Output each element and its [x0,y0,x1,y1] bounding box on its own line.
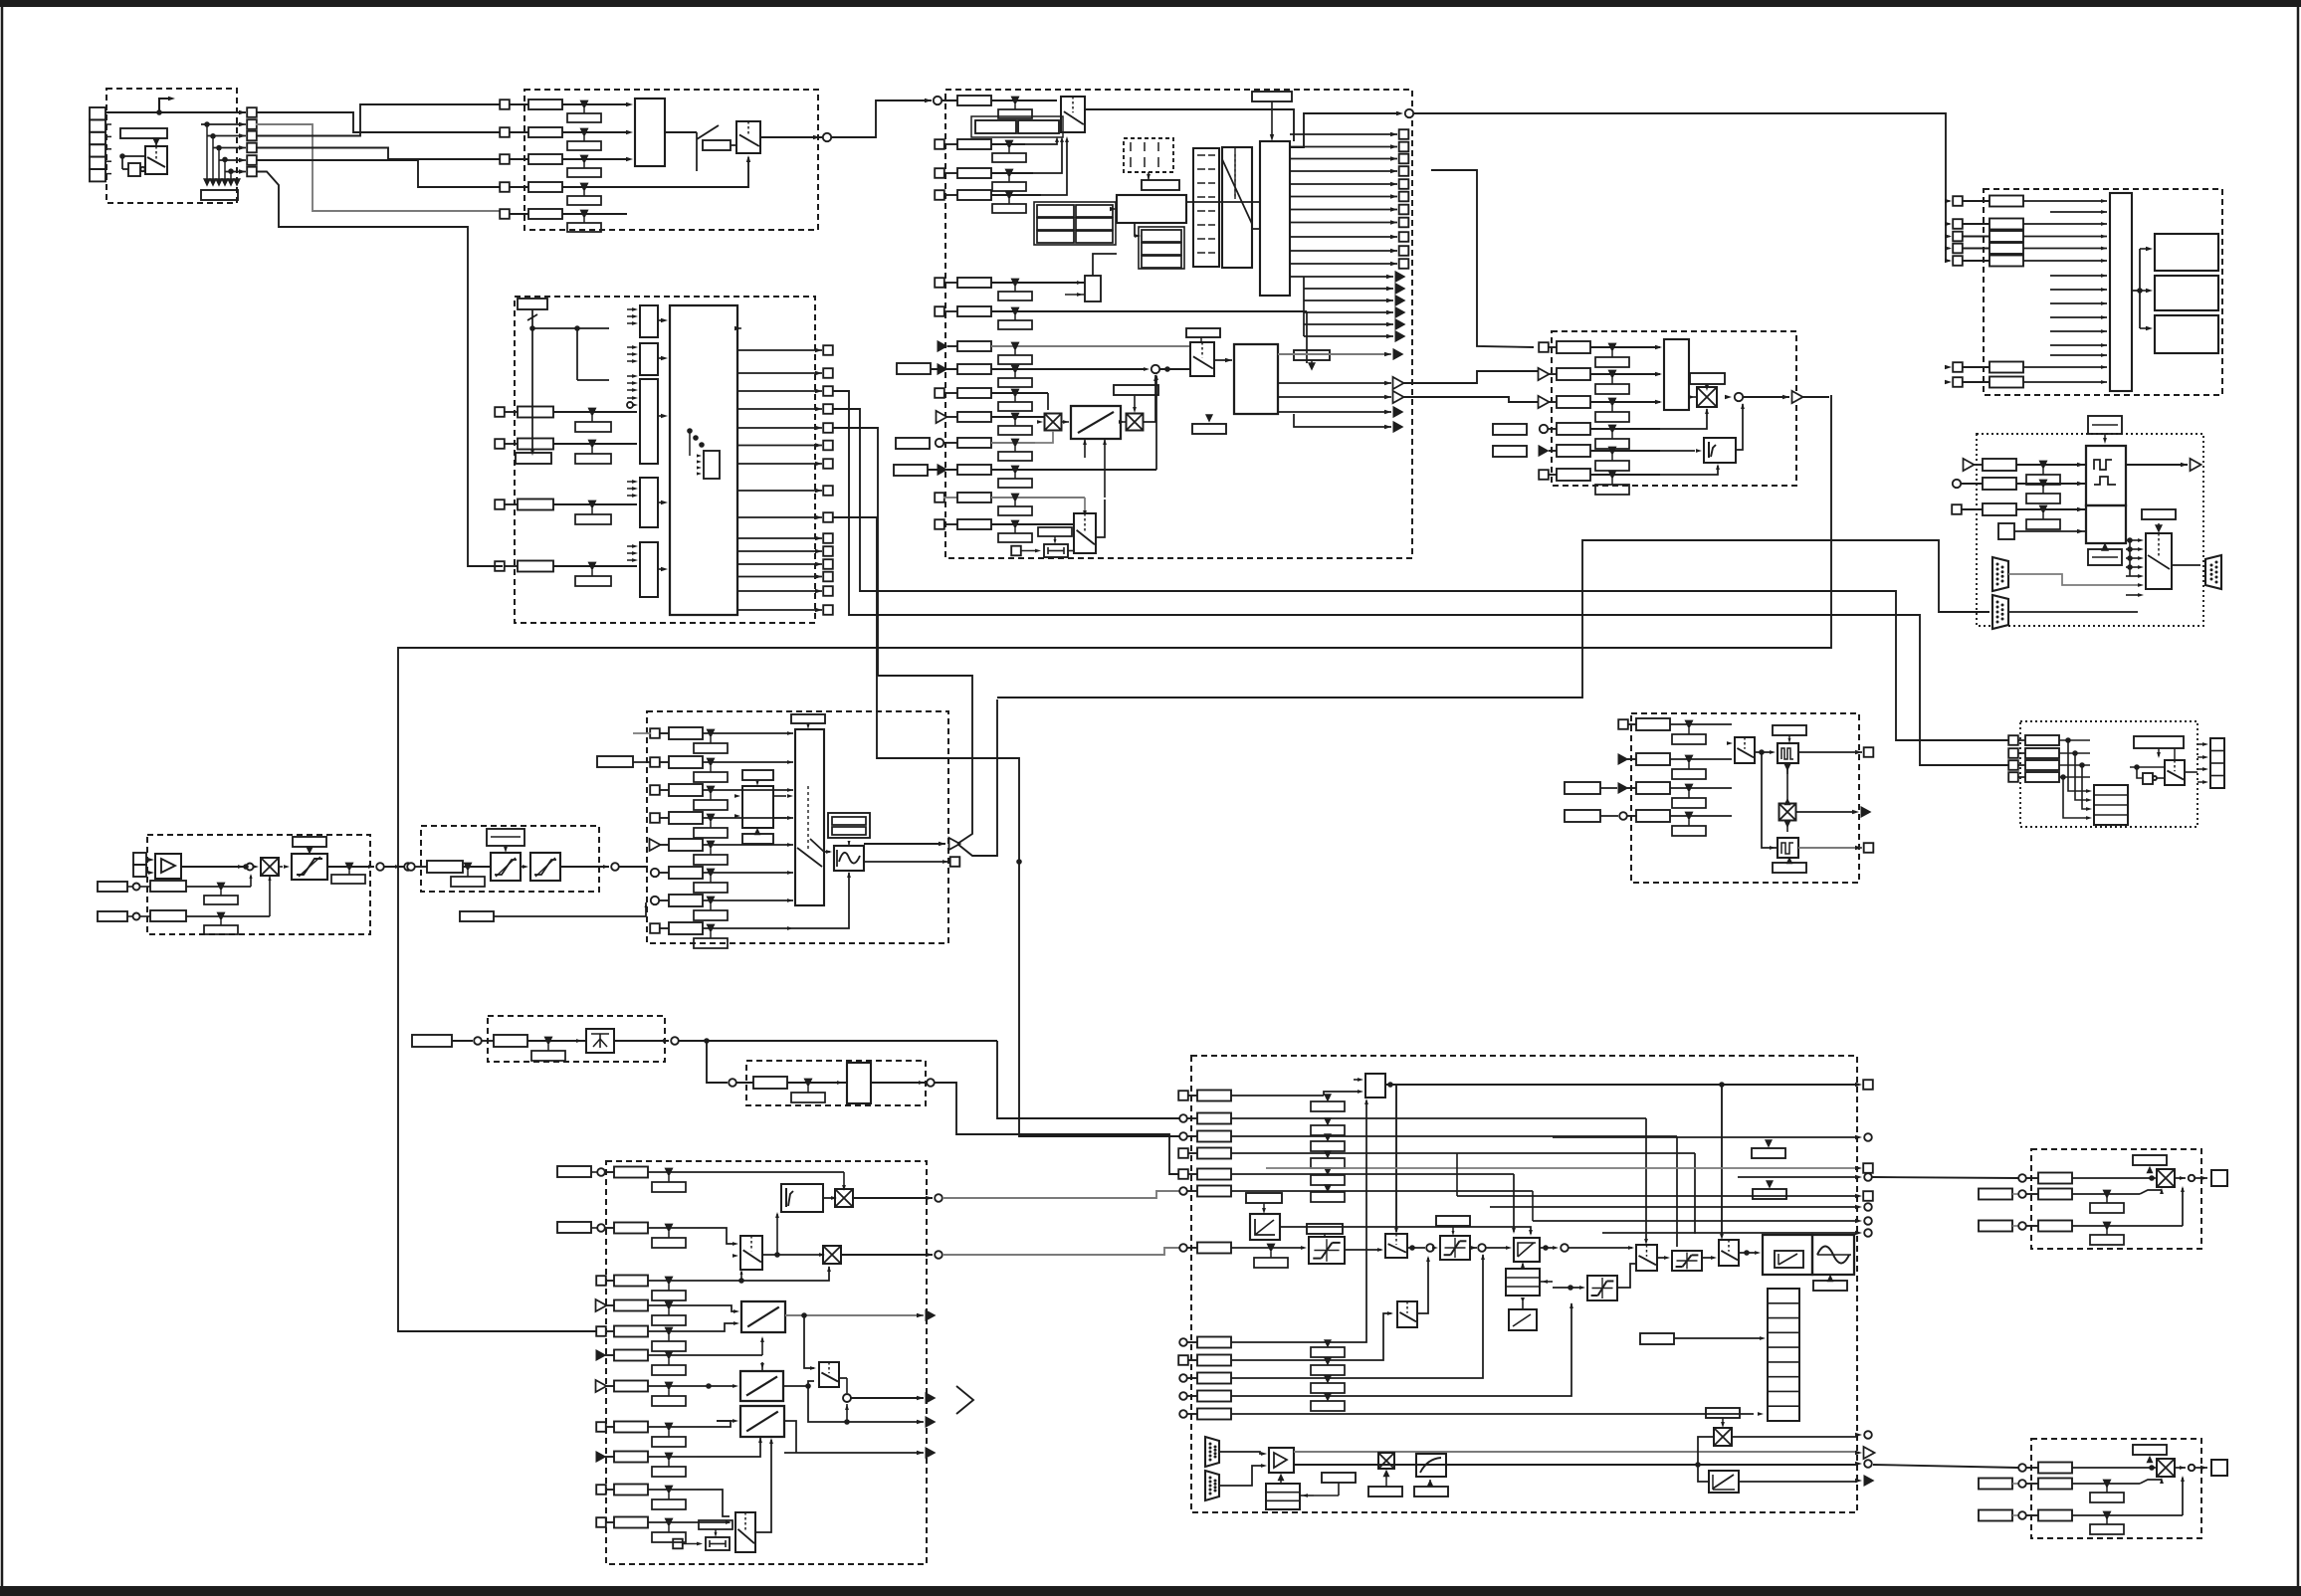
controller input row 10 [596,1485,606,1495]
rfg input row 8 [650,923,660,933]
row H2 tacho param [98,882,127,892]
limit input row 7 [1945,380,1952,384]
feeder stub row1 [633,732,651,734]
param above filter1 [487,829,524,846]
dashed frame: setpoint filter [421,826,599,892]
selector switch [736,121,760,153]
ramp icon block lower [1509,1309,1537,1330]
filter out wire to ramp area [619,866,648,868]
limit input row 6 [1945,365,1952,369]
speed controller block [1514,1238,1540,1262]
controller input row 7 [596,1380,607,1392]
input row 1 with setting [941,100,957,101]
dashed frame: ramp-function generator [647,711,948,943]
small square input [1998,523,2014,539]
wire up to table [1093,254,1117,276]
row H3 [98,911,127,921]
lower input row 2 [1178,1355,1188,1365]
R row2 [1979,1479,2012,1490]
integrator M [781,1184,823,1212]
wire selector to filter [1755,751,1770,753]
encoder amp [1269,1448,1294,1473]
trunk bus y679 into rfg merge [832,428,878,676]
rfg input row 2 [650,757,660,767]
selector M2 [819,1362,839,1387]
dashed frame: source selection [524,90,818,230]
wire control to gray output [1278,353,1391,355]
multiplier H [261,858,279,876]
feeder row4 [1565,810,1600,822]
junction circle after controller [1553,1246,1559,1250]
sum circle [1725,395,1732,399]
arrows into protocol [2077,463,2084,467]
tall mux N [1768,1289,1799,1421]
sum input row 3 [1539,396,1550,408]
shaper block [834,846,864,871]
min-max block [586,1029,614,1053]
dashed frame: jog setpoint [488,1016,665,1062]
controller input row 3 [596,1276,606,1286]
selector M [740,1236,762,1270]
digital out row 4 [2008,772,2018,782]
limiter N4 [1672,1251,1702,1271]
or-gate to block arrows [661,318,668,322]
junction rfg sq to x1024 [1016,859,1022,865]
controller input row 6 [596,1349,607,1361]
wire A4-B3 [256,148,500,160]
filter O2 [1778,838,1798,858]
terminal pair [133,853,146,865]
ramp limit block M3 [740,1406,784,1437]
wire to sequencing box [831,100,932,137]
output rows right edge [1553,1136,1857,1138]
sum input row 1 [1539,342,1549,352]
arrow fans into or-gates [632,307,638,311]
wire filter out [1280,1227,1531,1234]
minimum ramp block [1071,406,1121,439]
lower input row 5 [1179,1410,1187,1418]
selector P [2165,760,2185,785]
digital out row 3 [2008,760,2018,770]
x1730 drop into torque selector [1721,1085,1723,1237]
analog out row 2 [1618,753,1629,765]
sum input row 6 [1539,470,1549,480]
multiplier after ramp [1127,414,1144,431]
filter out [560,866,609,868]
Q row2 [1979,1189,2012,1200]
comm input row square [1952,504,1962,514]
trunk bus y762 into control actual row [832,517,1179,1136]
lower input row 4 [1179,1392,1187,1400]
encoder line 2 [1294,1464,1857,1466]
sum junction [1407,1247,1425,1249]
monitor blocks [2155,234,2218,271]
limiter N1 [1309,1237,1345,1264]
merge circle M [839,1377,847,1379]
sum input row 2 [1539,368,1550,380]
speed feedback vertical [1234,1451,1236,1453]
outs 1213-1239 [1490,1206,1857,1208]
control input row 4 [1178,1148,1188,1158]
R out [2175,1467,2186,1469]
outside rects feeding rows [1493,424,1527,435]
selector N3 [1719,1240,1739,1266]
jog feeder rect [412,1035,452,1047]
multiplier before ramp [1045,414,1062,431]
stack P [2094,785,2128,825]
out 1429 [808,1386,924,1422]
input row ftri 371 [938,363,948,375]
rfg input row 4 [650,813,660,823]
selector mid-row wire [1189,346,1191,360]
vertical from row to top [1338,1451,1340,1453]
gray out 1174 [1266,1167,1857,1169]
feed line into box R row1 [1873,1465,2018,1468]
parameter box above interval [1038,527,1072,536]
row5 wire to PI controller [1231,1173,1514,1175]
rfg input row 3 [650,785,660,795]
wire A2-B5 (gray) [256,124,500,211]
D-sub output right [2205,555,2221,589]
parameter box right of control [1294,350,1330,360]
wire sq output to sum box row1 [1431,170,1534,347]
rfg input row 6 [651,869,659,877]
controller input row 2 [597,1224,605,1232]
param under filter O2 [1773,863,1806,873]
limiter N3 (torque) [1587,1276,1617,1300]
parameter box under fan-out [201,190,238,200]
ramp limit block M2 [740,1371,783,1401]
curve block [1416,1454,1446,1477]
Q row1 [2018,1174,2026,1182]
main control block lower [1234,344,1278,414]
rfg selector block [1190,342,1214,376]
feeder rect row3 [1565,782,1600,794]
dual param right [828,813,870,838]
input row sq 500 gray [935,493,944,502]
param above limiter [293,837,326,847]
input row ftri 472 [894,465,928,476]
hidden [1166,368,1190,370]
trunk bus y618 to digital outputs [832,391,2009,765]
bus y701-543 to serial port [997,540,1989,698]
feed line into box Q [1872,1177,2018,1178]
xbox speed calc [1378,1453,1394,1469]
status word output circle [1396,111,1403,115]
branch arrow symbol [159,99,171,112]
jog output [614,1040,669,1042]
priority encoder block [635,99,665,166]
analog out row 4 [1619,812,1627,820]
dashed frame: sequence control [945,90,1412,558]
fixed setpoint output [871,1082,925,1084]
sub parameter under control [1192,424,1226,434]
long param P [2134,736,2184,748]
trunk bus y651 from setpoint sum [398,395,1831,1331]
page frame right border [2297,7,2300,1586]
wire: terminal to output 1 [105,111,246,113]
current controller block [1763,1235,1812,1275]
wire table to state machine [1116,216,1117,218]
x multiplier right top [1714,1428,1732,1446]
dots and arrows into mux [2127,537,2133,543]
dashed frame: technology controller [606,1161,927,1564]
wire A3-B2 [256,104,500,136]
ramp limit block M1 [741,1301,785,1332]
filter block N [1250,1214,1280,1240]
interval block M [706,1537,730,1550]
dotted frame: digital output group [2020,721,2197,827]
hold selector [1074,513,1096,553]
selector N1 [1385,1234,1407,1258]
rows 2-4 binector inputs [935,139,944,149]
param above mux [791,714,825,723]
filter block 1 [491,853,521,881]
rfg output merge [939,842,945,846]
comm input row circle [1953,480,1961,488]
controller out 1 [853,1197,933,1199]
limit input row 3 [1945,234,1952,238]
selector N4 [1397,1301,1417,1327]
top small parameter [518,299,547,309]
output cells P [2210,738,2224,788]
controller input row 1 [597,1168,605,1176]
param under pwm [1813,1281,1847,1291]
row4 wire to multiplier bottom [1629,409,1707,429]
latch top output wire [1290,113,1399,147]
wire selector to ramp [1096,499,1105,537]
x1838 drop into selector [1729,1239,1829,1241]
fixed setpoint block [847,1063,871,1103]
multiplier M2 [823,1246,841,1264]
integrator feedback block [1704,438,1736,463]
row6 wire under integrator [1629,466,1718,475]
multiplier M1 [835,1189,853,1207]
wire bundle latch to lower connector [1303,277,1305,336]
jog line continues right [707,1040,997,1042]
selection input row 3 [500,154,510,164]
dashed frame: control word interconnection [515,297,815,623]
fan-out taps to outputs [204,121,210,127]
limiter H [292,854,327,880]
lower row risers [1324,1100,1366,1342]
big interconnection block [670,305,737,615]
input row otri 419 [937,411,947,423]
sequencer tall block [1222,147,1252,268]
dotted frame: serial interface [1977,434,2203,626]
dashed frame: limit block [1984,189,2222,395]
wire M ramp1 out [785,1314,886,1316]
bit-field column [1193,148,1219,267]
dual parameter box [975,120,1016,133]
mux to shaper [824,842,834,851]
wire otri399 to sum box [1403,397,1539,402]
limiter N2 [1440,1236,1470,1260]
comm input row triangle [1964,459,1975,471]
parameter box above latch [1252,92,1292,101]
shaper outputs [864,843,945,845]
wire status to limit box [1413,113,1946,261]
value stack 1x3 [1142,230,1181,242]
inner tap block [704,451,720,479]
wire limiter to selector [1345,1249,1381,1251]
feeder rect row2 [597,756,633,767]
input row circ 445 [896,438,930,449]
row5 wire to integrator [1629,450,1695,452]
sum input row 5 [1539,445,1550,457]
filter O2 out gray [1798,847,1862,849]
sub rect stack with triangles [1311,1101,1345,1111]
wire A1-B1 [256,112,500,132]
controller input row 8 [596,1422,606,1432]
dashed frame: analog output Q [2031,1149,2201,1249]
dashed frame: closed-loop motor control [1191,1056,1857,1512]
torque outputs ftri [1278,411,1391,413]
Q out [2175,1177,2186,1179]
input row sq 395 [935,388,944,398]
D-sub encoder connectors [1205,1437,1219,1467]
wires dsub to mux [2008,574,2138,585]
input rows of command box [495,407,505,417]
dashed frame: setpoint addition [1552,331,1796,486]
selector switch S1 [145,146,167,174]
controller input row 9 [596,1451,607,1463]
setpoint output otri 385 [1278,382,1391,384]
sum circle 2 [1470,1247,1477,1249]
mux rows without param [2050,211,2107,213]
trunk bus y594 to digital outputs [832,409,2009,740]
NOT gate P [2143,773,2153,784]
multiplier [1697,387,1717,407]
state machine block [1117,195,1186,223]
sum circle before selector [1144,367,1150,371]
ramp block up-wires [1084,439,1086,458]
rfg input row 5 [650,839,661,851]
junction dots and risers P [2065,737,2071,743]
lower input row 3 [1179,1374,1187,1382]
digital out row 2 [2008,748,2018,758]
selector3 feed [1737,1085,1739,1237]
limit input row 1 [1945,199,1952,203]
selection input row 2 [500,127,510,137]
amplifier block [155,854,181,879]
control input row 6 [1179,1187,1187,1195]
filter O1 out [1798,751,1862,753]
controller out 2 [841,1254,933,1256]
wire A6 long trunk to command box [256,172,503,567]
R row1 [2018,1464,2026,1472]
input row sq 284 [935,278,944,288]
terminal strip X100 [90,107,105,119]
analog out row 1 [1618,719,1628,729]
below param wire [460,911,494,921]
selection input row 5 [500,209,510,219]
chevron merge symbol [956,1386,973,1414]
binector status outputs [1290,133,1397,135]
page frame top border [0,0,2301,7]
wire into selector N2 [1569,1247,1632,1249]
wire A5-B4 [256,160,500,187]
limit mux tall [2110,193,2132,391]
arrow into stack from right [1540,1281,1553,1283]
comm output [2126,464,2188,466]
R xbox [2157,1459,2175,1477]
output latch tall block [1260,141,1290,296]
dashed frame: analog output group [1631,713,1859,883]
wire row4 to switch lower input [601,157,748,187]
parameter under slash [516,453,551,464]
triple rect under controller [1506,1269,1540,1296]
wire otri385 to sum box [1403,371,1539,383]
wire rows to ramp3 [697,1437,760,1457]
Q xbox [2157,1169,2175,1187]
vertical link between ramps [761,1338,763,1355]
risers from lower rows [1324,1264,1453,1342]
dashed frame: fixed setpoint [746,1061,926,1105]
control input row 5 [1178,1169,1188,1179]
switch contact symbol [665,131,697,133]
limit input row 2 [1945,222,1952,226]
feeder rects for top rows [557,1166,591,1177]
logic NOT gate [128,163,140,176]
drop to fixed setpoint box [707,1041,728,1083]
xbox out to ftri [1796,811,1853,813]
out 1183 [1738,1176,1857,1178]
long vertical inside N [1532,1191,1534,1338]
rounding block [742,786,773,828]
state machine to latch wires [1186,201,1260,203]
rfg input row 7 [651,897,659,904]
top small block [1365,1074,1385,1097]
selector O [1735,737,1755,763]
rfg input row 1 [650,728,660,738]
page frame left border [1,7,4,1586]
wire from controller right [1540,1247,1553,1249]
Q row3 [1979,1221,2012,1232]
selection input row 1 [500,100,510,109]
out 1460 [697,1436,756,1457]
input row sq 527 [935,519,944,529]
amp out wire [181,866,244,868]
control input row 1 [1178,1091,1188,1100]
limit input row 4 [1945,246,1952,250]
pwm block with sine [1812,1235,1854,1275]
parameter above multiplier [1690,373,1725,384]
analog out row 3 [1618,782,1629,794]
output mux small [2146,533,2172,589]
sq out [864,861,947,863]
lower input row 1 [1179,1338,1187,1346]
parameter box [120,128,167,138]
dashed frame: analog output R [2031,1439,2201,1538]
page frame bottom border [0,1586,2301,1596]
D-sub connectors left [1992,557,2008,591]
xbox O [1779,804,1796,821]
aux setpoint rect [897,363,931,374]
R row3 [1979,1510,2012,1521]
out 1202 [1457,1195,1857,1197]
row3 riser into multiplier [697,1267,829,1281]
usS protocol block [2086,446,2126,505]
ramp block right bottom [1709,1471,1739,1493]
binector outputs of terminal block [239,110,246,114]
wire selector to logic [1085,109,1294,141]
digital out row 1 [2008,735,2018,745]
rect right of triple [1322,1473,1356,1483]
wire state machine to stack [1135,223,1139,236]
filter O1 [1778,743,1798,763]
row6 wire [1231,1190,1533,1192]
